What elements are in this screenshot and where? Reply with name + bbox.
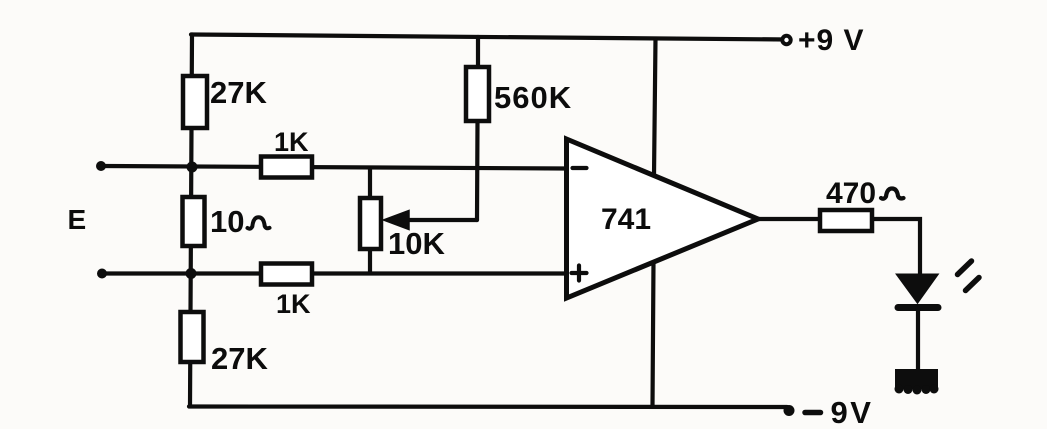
wire: LED cathode to ground xyxy=(916,308,920,371)
label 470 ohm xyxy=(826,177,904,210)
resistor 27K (top left), body xyxy=(183,76,207,128)
wire: +9V top rail xyxy=(191,35,788,40)
node: junction of 27K/10R/1K at inverting divider xyxy=(187,162,198,173)
wire: V+ supply drop to op-amp xyxy=(654,39,656,176)
node: +9V terminal (open circle) xyxy=(782,36,790,44)
LED D1 cathode bar xyxy=(898,304,938,311)
wire: 10K pot vertical leads between input lines xyxy=(368,168,372,273)
wiper arrowhead of potentiometer xyxy=(384,211,410,230)
wire: left vertical bus (27K / 10R / 27K column) xyxy=(190,35,192,407)
svg-text:E: E xyxy=(68,204,87,235)
node: top input terminal dot xyxy=(96,161,106,171)
LED light rays xyxy=(958,261,980,291)
svg-text:741: 741 xyxy=(601,203,651,236)
wire: V- supply drop from op-amp xyxy=(653,261,654,407)
node: bottom input terminal dot xyxy=(97,269,107,279)
wire: -9V bottom rail xyxy=(189,404,787,409)
wire: inverting input line xyxy=(101,166,566,169)
node: -9V terminal dot xyxy=(784,405,795,416)
resistor 560K, body xyxy=(466,67,489,121)
wire: non-inverting input line xyxy=(102,271,566,275)
svg-text:1K: 1K xyxy=(274,127,309,157)
svg-text:1K: 1K xyxy=(276,289,311,319)
resistor 1K (bottom), body xyxy=(261,264,312,285)
wire: wiper arm horizontal xyxy=(406,218,477,222)
LED D1 anode triangle xyxy=(897,275,938,303)
svg-text:560K: 560K xyxy=(494,80,572,115)
resistor 470 ohm, body xyxy=(820,210,872,231)
resistor 27K (bottom left), body xyxy=(181,312,204,362)
op-amp non-inverting pin mark (plus) xyxy=(572,266,587,281)
svg-text:+9 V: +9 V xyxy=(798,24,865,57)
resistor 1K (top), body xyxy=(261,157,312,178)
ground symbol (solid block with scalloped base) xyxy=(895,369,939,395)
svg-text:27K: 27K xyxy=(210,75,267,110)
potentiometer 10K, body xyxy=(360,198,381,249)
wire: op-amp output to 470 ohm and LED xyxy=(756,219,920,277)
wire: 560K bottom lead down to wiper xyxy=(475,121,480,220)
svg-text:10: 10 xyxy=(210,204,244,239)
svg-text:9V: 9V xyxy=(831,395,874,429)
label -9V supply xyxy=(805,395,873,429)
resistor 10 ohm, body xyxy=(183,197,205,246)
node: junction of 10R/27K/1K at non-inverting divider xyxy=(186,268,197,279)
label 10 ohm xyxy=(210,204,270,239)
op-amp inverting pin mark (minus) xyxy=(573,166,587,170)
svg-text:470: 470 xyxy=(826,177,876,210)
op-amp 741 triangle xyxy=(567,139,759,298)
svg-text:10K: 10K xyxy=(388,226,445,261)
wire: 560K top lead from +9V rail xyxy=(476,37,480,68)
svg-text:27K: 27K xyxy=(211,341,268,376)
